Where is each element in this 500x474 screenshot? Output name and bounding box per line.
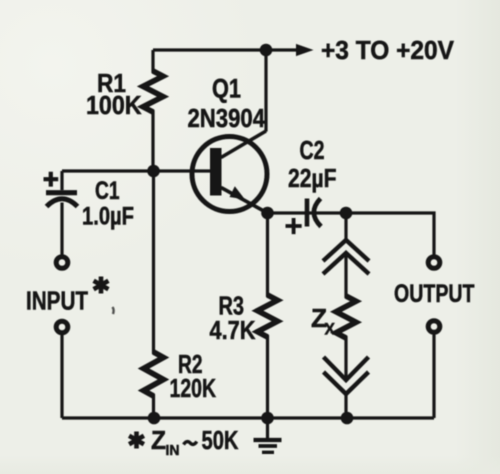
svg-text:+3 TO +20V: +3 TO +20V [321,35,455,65]
output terminal bottom [428,321,440,333]
svg-text:Z: Z [151,425,166,455]
capacitor C2 [268,199,347,227]
svg-text:50K: 50K [202,425,239,455]
wire top supply rail [153,48,298,51]
svg-text:2N3904: 2N3904 [188,103,266,133]
asterisk footnote mark in note [129,432,144,449]
asterisk footnote mark at input [94,277,109,294]
label Zx [311,303,336,339]
impedance Zx resistor body [344,253,347,380]
svg-text:Q1: Q1 [212,74,241,104]
ground symbol [254,418,282,452]
stray scan mark [113,307,114,314]
input terminal bottom [56,321,68,333]
node supply junction [260,44,273,57]
svg-text:1.0µF: 1.0µF [82,203,134,231]
label Zin approx 50K note [151,425,239,459]
svg-text:OUTPUT: OUTPUT [394,280,475,308]
node base junction [147,165,160,178]
svg-text:X: X [325,320,336,339]
supply arrowhead [296,44,314,56]
svg-text:INPUT: INPUT [26,286,88,316]
resistor R2 [152,171,155,418]
resistor R1 [151,50,154,171]
resistor R3 [266,213,269,418]
polarity + of C1 [44,172,59,187]
svg-text:22µF: 22µF [288,163,337,193]
svg-text:IN: IN [166,442,180,459]
wire bottom ground rail [62,416,434,419]
svg-text:120K: 120K [170,373,217,403]
impedance Zx external arrows bottom [324,357,369,418]
node R2 rail junction [148,412,161,425]
wire base [62,169,210,172]
svg-text:100K: 100K [86,90,142,120]
node emitter junction [261,207,274,220]
wire collector [264,50,267,132]
polarity + of C2 [286,218,302,234]
impedance Zx external arrows top [323,213,369,274]
node R3 rail junction [261,412,274,425]
capacitor C1 [46,171,78,255]
wire output ground leg [432,335,435,419]
node C2 output junction [340,207,353,220]
output terminal top [428,257,440,269]
svg-text:C2: C2 [300,135,325,165]
wire input ground leg [60,335,63,418]
svg-text:4.7K: 4.7K [210,315,256,345]
node Zx rail junction [341,412,354,425]
wire to output terminal [346,213,434,255]
input terminal top [56,257,68,269]
svg-text:C1: C1 [95,177,120,205]
transistor Q1 [192,131,268,213]
